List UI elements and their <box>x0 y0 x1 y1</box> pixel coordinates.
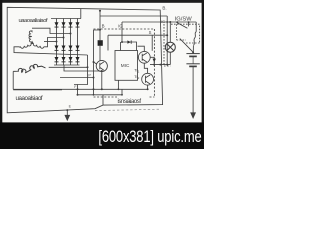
node battery plus <box>192 51 194 53</box>
transistor Tr2 <box>142 73 154 85</box>
ground (alternator E) <box>64 115 70 121</box>
node L junctions <box>153 64 155 66</box>
wire stator phase A <box>32 28 71 33</box>
ignition switch inner dashed edge <box>177 24 187 40</box>
wire Tr3 base <box>94 62 97 64</box>
wire E ground stub <box>66 110 68 117</box>
svg-text:uaaoalsiaof: uaaoalsiaof <box>16 95 43 102</box>
svg-text:MIC: MIC <box>121 63 130 68</box>
rectifier top bus <box>51 18 81 20</box>
wire stator phase left down <box>14 47 88 55</box>
wire P sense line <box>60 77 94 79</box>
node phase B to diode column 2 <box>63 37 65 39</box>
diode column 1 <box>56 19 58 66</box>
stator winding Y <box>29 30 32 42</box>
node stator Y center <box>31 42 33 44</box>
node MIC bottom pin <box>118 88 120 90</box>
rectifier bottom bus <box>54 64 80 66</box>
svg-text:B: B <box>102 23 105 28</box>
battery BT1 <box>186 53 199 55</box>
wire L line to lamp <box>150 64 170 66</box>
diode D4 <box>76 22 80 27</box>
svg-text:uaaoaaliaiaof: uaaoaaliaiaof <box>19 18 48 24</box>
wire battery negative down <box>192 66 194 113</box>
diode D13 on IG feed <box>127 40 131 43</box>
svg-text:isnsiaiaosf: isnsiaiaosf <box>118 99 142 105</box>
wire rectifier negative to E <box>64 65 102 71</box>
ground (battery) <box>190 112 196 119</box>
node phase A to diode column 3 <box>70 33 72 35</box>
node S tap <box>166 34 168 36</box>
wire B horizontal to terminal B <box>100 15 167 17</box>
wire lamp bottom <box>169 52 171 64</box>
wire battery sense vertical <box>166 16 168 65</box>
node Tr2 emitter <box>147 88 149 90</box>
transistor Tr1 <box>138 51 150 63</box>
svg-text:IG: IG <box>161 19 165 24</box>
node E junction <box>101 70 103 72</box>
diode column 2 <box>63 19 65 66</box>
node F brush <box>87 66 89 68</box>
zener diode ZD (solid) <box>98 40 103 46</box>
wire Tr2 emitter down <box>147 85 149 89</box>
MIC hybrid IC box U1 <box>115 51 138 81</box>
svg-text:[600x381] upic.me: [600x381] upic.me <box>98 129 201 147</box>
wire IG to MIC <box>122 42 137 51</box>
svg-text:P: P <box>88 73 91 77</box>
diode D8 <box>76 46 80 51</box>
wire stator phase C stub <box>44 41 57 43</box>
wire IG corner to fuse <box>195 22 197 32</box>
diode D12 <box>76 57 80 62</box>
diode D5 <box>55 46 59 51</box>
wire Tr1 collector up <box>138 46 145 51</box>
diode D11 <box>69 57 73 62</box>
fuse FL (fusible link) <box>194 32 197 46</box>
diode column 4 <box>77 19 79 66</box>
wire lamp feed <box>169 22 171 42</box>
image left border <box>0 0 2 149</box>
wire Tr1 base <box>137 56 140 58</box>
wire MIC bottom pin <box>117 80 119 89</box>
svg-text:S: S <box>149 30 152 35</box>
ignition switch dashed box <box>171 24 200 43</box>
rotor field coil <box>13 64 45 73</box>
node IG diode junction <box>121 41 123 43</box>
wire Tr1 to Tr2 <box>144 63 147 73</box>
wire S to MIC <box>107 35 109 50</box>
switch SW1 <box>176 21 178 23</box>
node L at frame edge <box>159 64 161 66</box>
wire S branch down <box>151 35 153 51</box>
diode D7 <box>69 46 73 51</box>
image top border <box>0 0 204 3</box>
wire faint lower dashed <box>95 109 160 110</box>
diode D2 <box>62 22 66 27</box>
node sense crossing IG <box>166 21 168 23</box>
wire IG line <box>122 21 196 23</box>
wire inner tie <box>121 89 123 95</box>
wire zener to Tr3 <box>99 46 101 61</box>
diode D9 <box>55 57 59 62</box>
wire F drop to terminal <box>77 85 79 90</box>
node E to bottom wire <box>101 88 103 90</box>
image right border <box>202 0 204 149</box>
regulator dashed box <box>94 28 155 30</box>
wire Tr1 emitter right <box>150 57 154 64</box>
alternator frame (outer box, slightly skewed scan) <box>7 7 162 113</box>
node B+ junction on top bus <box>99 10 101 12</box>
diode D14 <box>153 59 156 63</box>
node internal left junctions <box>93 88 95 90</box>
diode D1 <box>55 22 59 27</box>
watermark bar <box>0 122 204 149</box>
diode D10 <box>62 57 66 62</box>
wire internal left bus <box>94 30 101 95</box>
wire Tr3 emitter down <box>101 72 103 90</box>
diode D6 <box>62 46 66 51</box>
wire bottom inner <box>78 94 123 96</box>
wire E drop to frame bottom <box>102 95 104 105</box>
node phase C to diode column 1 <box>56 41 58 43</box>
svg-text:IG: IG <box>118 23 123 28</box>
wire B+ from rectifier to frame-top bus <box>80 9 82 19</box>
wire rotor bottom lead <box>13 89 62 91</box>
wire F terminal stub <box>77 89 79 95</box>
wire fuse to battery <box>192 46 194 53</box>
node Tr3 base <box>93 61 95 63</box>
transistor Tr3 <box>96 60 107 71</box>
wire switch to battery junction <box>180 39 193 52</box>
wire stator phase B <box>45 38 64 47</box>
switch fixed contact stub <box>188 22 190 26</box>
svg-text:B.: B. <box>162 5 166 10</box>
wire MIC pin top <box>120 42 122 51</box>
wire S sense line <box>108 34 167 36</box>
node B entry dot <box>99 29 101 31</box>
diode D3 <box>69 22 73 27</box>
wire rotor left lead <box>12 71 14 89</box>
diode column 3 <box>70 19 72 66</box>
wire B entry <box>99 11 101 40</box>
charge lamp L1 <box>165 42 175 52</box>
wire rotor F lead to brush <box>49 66 88 68</box>
wire F vertical from mid bus <box>74 55 88 85</box>
node P junction <box>93 77 95 79</box>
wire IG entry <box>121 22 123 42</box>
node bottom inner <box>121 94 123 96</box>
